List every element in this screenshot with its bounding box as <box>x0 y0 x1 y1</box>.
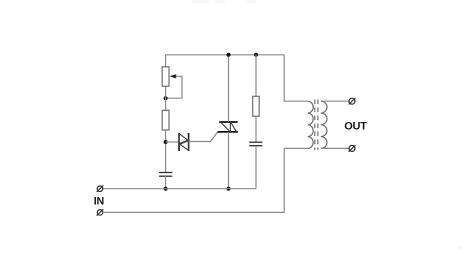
triac Q1 <box>218 122 238 132</box>
capacitor C1 <box>159 173 172 177</box>
diac D1 <box>179 133 189 151</box>
potentiometer P1 wiper arrow <box>166 74 182 98</box>
wire R2 to C2 <box>255 116 257 142</box>
svg-text:OUT: OUT <box>344 120 367 132</box>
node wiper junction <box>164 96 168 100</box>
wire C1 down <box>165 176 167 189</box>
capacitor C2 <box>249 142 262 146</box>
svg-text:IN: IN <box>94 195 104 207</box>
resistor R2 <box>253 96 260 116</box>
wire diac to triac gate <box>189 132 218 142</box>
wire R1 to C1 <box>165 130 167 172</box>
transformer T1 core <box>315 100 318 151</box>
resistor R1 <box>162 110 169 130</box>
wire triac cathode down <box>228 132 230 189</box>
wire triac anode up <box>228 55 230 122</box>
node diac tee <box>164 140 168 144</box>
wire pot to R1 <box>165 86 167 110</box>
terminal OUT bottom <box>349 145 356 152</box>
wire C2 down <box>255 146 257 189</box>
node triac bottom <box>227 187 231 191</box>
transformer T1 primary <box>308 101 313 148</box>
node rail triac <box>227 53 231 57</box>
wire to diac <box>166 141 179 143</box>
wire left branch top <box>165 55 167 67</box>
terminal IN bottom <box>97 209 104 216</box>
terminal OUT top <box>349 98 356 105</box>
wire IN bottom <box>103 148 285 212</box>
terminal IN top <box>97 185 104 192</box>
wire rail to R2 <box>255 55 257 97</box>
wire top rail <box>166 54 285 56</box>
wire IN top <box>103 188 256 190</box>
potentiometer P1 body <box>162 67 169 86</box>
wire primary bottom <box>284 147 308 149</box>
wire rail to primary <box>284 55 308 101</box>
wire secondary top <box>321 100 349 102</box>
node rail R2 <box>254 53 258 57</box>
transformer T1 secondary <box>321 101 327 148</box>
wire secondary bottom <box>321 147 349 149</box>
node C1 bottom <box>164 187 168 191</box>
